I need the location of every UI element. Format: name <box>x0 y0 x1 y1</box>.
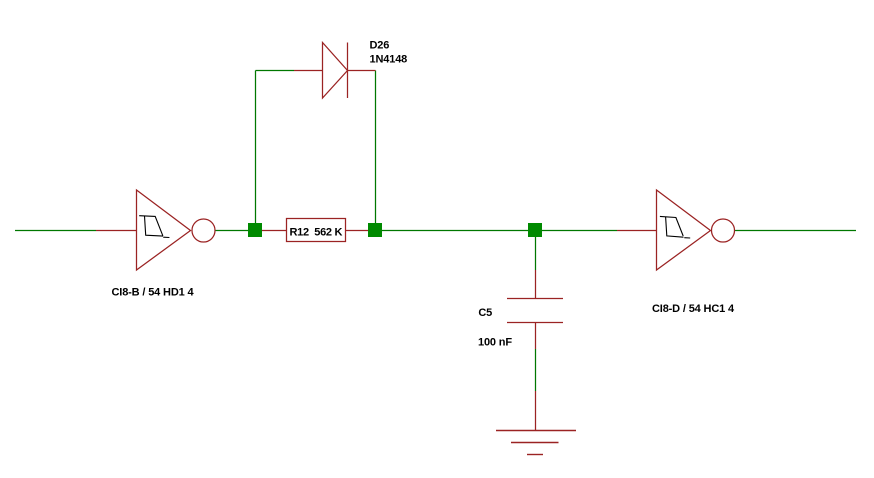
svg-text:C5: C5 <box>478 307 492 319</box>
svg-text:R12 562 K: R12 562 K <box>290 226 343 238</box>
svg-text:100 nF: 100 nF <box>478 337 512 349</box>
svg-text:1N4148: 1N4148 <box>370 53 408 65</box>
svg-text:CI8-D / 54 HC1 4: CI8-D / 54 HC1 4 <box>652 303 735 315</box>
svg-text:D26: D26 <box>370 40 390 52</box>
svg-text:CI8-B / 54 HD1 4: CI8-B / 54 HD1 4 <box>112 287 195 299</box>
